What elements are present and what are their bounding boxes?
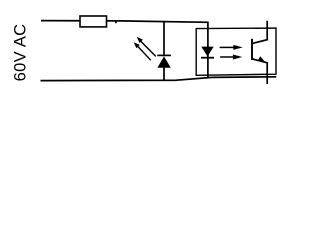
svg-text:60V AC: 60V AC xyxy=(12,24,30,82)
